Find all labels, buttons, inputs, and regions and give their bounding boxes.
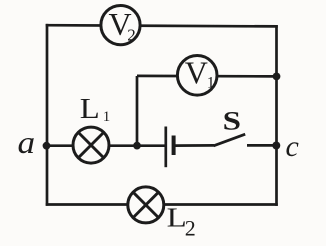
label a [18, 125, 36, 160]
junction dot V1-branch to middle wire [133, 142, 141, 150]
wire top [46, 25, 278, 26]
voltmeter V2 [101, 6, 140, 45]
label L2 [167, 202, 196, 240]
svg-text:a: a [18, 125, 36, 160]
svg-text:1: 1 [103, 109, 111, 125]
lamp L1 [73, 127, 109, 163]
wire V1 branch vertical [136, 76, 139, 146]
svg-text:S: S [223, 108, 241, 136]
wire right [275, 25, 278, 206]
svg-text:2: 2 [127, 25, 136, 44]
battery cell short plate [172, 136, 176, 156]
svg-text:V: V [185, 55, 208, 91]
svg-text:L: L [80, 92, 100, 125]
switch S blade [214, 134, 246, 146]
wire left [46, 24, 49, 206]
wire battery to switch [174, 144, 214, 147]
voltmeter V1 [177, 55, 217, 96]
svg-text:L: L [167, 202, 187, 232]
node c junction dot [272, 142, 280, 150]
label S [223, 108, 241, 136]
node a junction dot [43, 142, 51, 150]
label L1 [80, 92, 111, 125]
battery cell long plate [164, 127, 167, 168]
wire V1 branch horizontal [137, 75, 277, 78]
svg-text:2: 2 [185, 216, 196, 241]
lamp L2 [128, 187, 164, 223]
wire bottom [46, 203, 278, 206]
svg-text:c: c [286, 130, 299, 163]
svg-text:1: 1 [207, 74, 215, 91]
junction dot V1-branch to right wire [273, 73, 281, 81]
wire switch contact to c [247, 144, 277, 147]
wire middle branch a to battery [47, 144, 166, 147]
